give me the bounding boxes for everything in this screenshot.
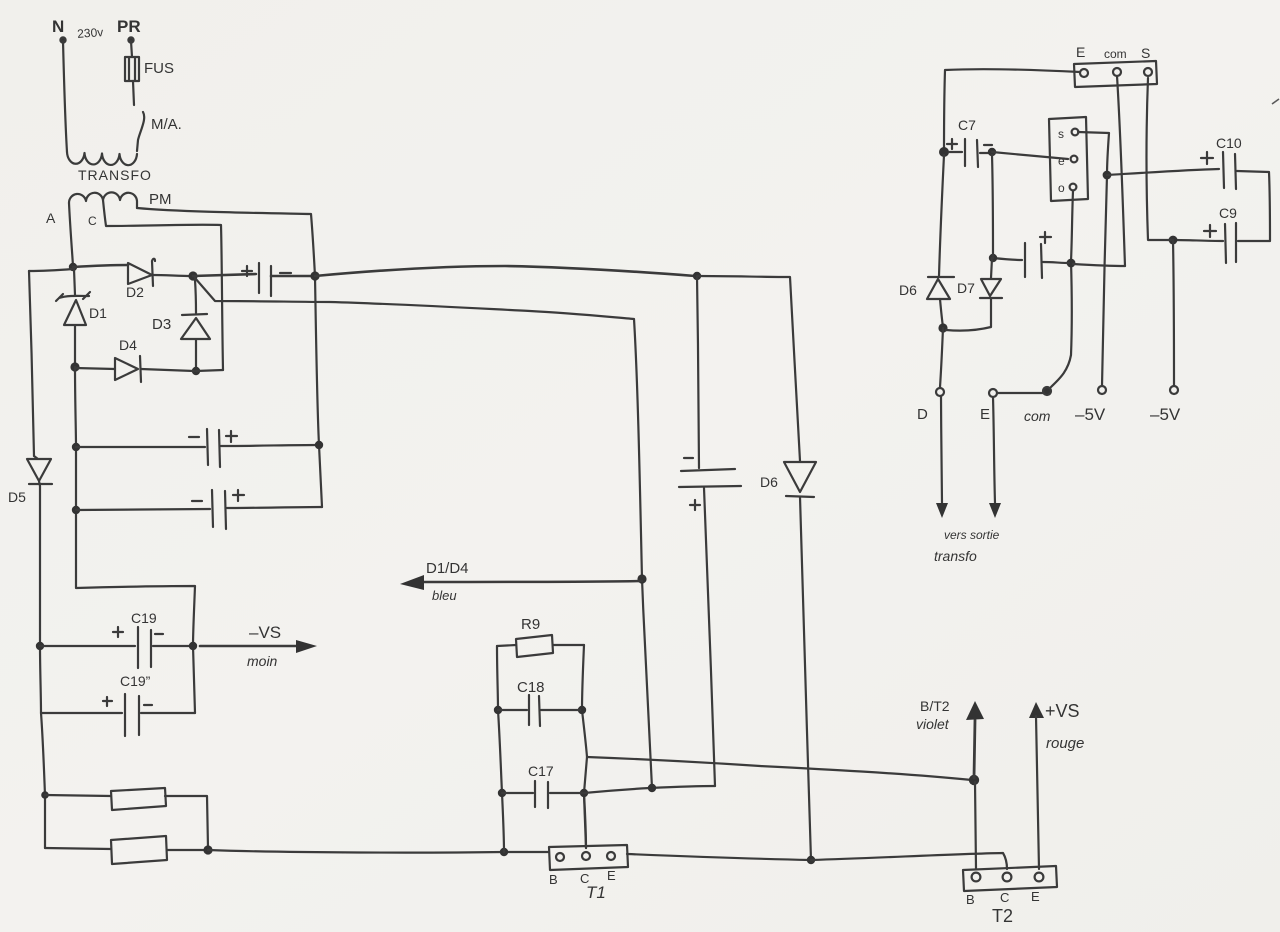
node D6/D7 [938, 323, 947, 332]
resistor (upper) leads [45, 795, 208, 848]
wire far-left rail upper [29, 271, 34, 456]
wire A-line down left column [75, 367, 195, 713]
svg-text:s: s [1058, 127, 1064, 141]
wire secondary A lead [69, 203, 73, 266]
terminal -5V right [1170, 386, 1178, 394]
svg-text:violet: violet [916, 716, 950, 732]
connector T2 pin B [972, 873, 981, 882]
svg-text:C10: C10 [1216, 135, 1242, 151]
node C17 left [498, 789, 506, 797]
capacitor C19'' plus [103, 697, 112, 706]
wire fuse to switch [133, 81, 134, 105]
diode D7 [980, 279, 1002, 298]
terminal -5V left [1098, 386, 1106, 394]
svg-text:o: o [1058, 181, 1065, 195]
connector T1 pin E [607, 852, 615, 860]
big filter capacitor plus [690, 500, 700, 510]
capacitor C7 minus [984, 144, 992, 146]
reservoir cap row2 plus [233, 490, 244, 501]
terminal N [60, 37, 65, 42]
reservoir cap row1 plus [226, 431, 237, 442]
wire secondary C tap [103, 200, 223, 370]
node C17 right [580, 789, 588, 797]
node bottom rail left [203, 845, 212, 854]
node C19 left [36, 642, 44, 650]
wire bridge output diagonal and long rail [195, 278, 652, 788]
resistor R9 leads [497, 645, 584, 646]
wire D6 down to bottom rail [800, 497, 811, 860]
svg-text:D2: D2 [126, 284, 144, 300]
wire D4 to D3 node [141, 369, 194, 371]
svg-text:D6: D6 [760, 474, 778, 490]
svg-text:C9: C9 [1219, 205, 1237, 221]
wire C18 right to T2 B node [587, 757, 972, 780]
wire T1 C pin up to C17 node [584, 795, 586, 848]
capacitor C7 plus [947, 139, 957, 149]
node D1/D4 [70, 362, 79, 371]
capacitor C18 plates [529, 695, 540, 726]
wire E line to arrow [993, 397, 995, 503]
capacitor C9 plates [1225, 223, 1236, 263]
svg-text:230v: 230v [77, 25, 104, 41]
diode D6 (main) [784, 462, 816, 497]
reservoir cap row1 minus [189, 436, 199, 438]
capacitor (driver) right lead [1043, 262, 1125, 266]
wire s pin to -5V left [1078, 132, 1109, 386]
diode D4 [115, 356, 141, 382]
capacitor C19'' minus [144, 704, 152, 706]
capacitor (D2 output) left lead [193, 274, 256, 276]
resistor R9 body [516, 635, 553, 657]
svg-text:T1: T1 [586, 883, 606, 902]
svg-text:D5: D5 [8, 489, 26, 505]
capacitor C17 leads [502, 792, 582, 794]
arrow +VS up [1029, 702, 1044, 718]
svg-text:D1/D4: D1/D4 [426, 560, 469, 577]
svg-text:T2: T2 [992, 906, 1013, 926]
node C7 right [988, 148, 996, 156]
svg-text:bleu: bleu [432, 588, 457, 603]
svg-text:D4: D4 [119, 337, 137, 353]
wire D6 small to node [940, 299, 943, 327]
connector T1 pin B [556, 853, 564, 861]
arrow -VS [200, 645, 298, 648]
svg-text:D6: D6 [899, 282, 917, 298]
reservoir cap row2 plates [212, 490, 226, 529]
wire E pin to C7 [944, 69, 1080, 152]
node o/cap junction [1067, 259, 1076, 268]
capacitor C19'' plates [125, 694, 139, 736]
terminal com [1043, 387, 1051, 395]
wire C9 node to S pin [1147, 78, 1174, 240]
node A junction [69, 263, 77, 271]
wire node to D3 [195, 280, 196, 313]
capacitor (D2 output) plates [259, 263, 271, 296]
wire com pin drop [1117, 76, 1125, 266]
wire D2 to bridge+ node [153, 275, 191, 276]
svg-text:B: B [549, 872, 558, 887]
wire far-left rail lower [40, 486, 45, 848]
capacitor C19'' right lead [141, 712, 195, 714]
connector T1 body [549, 845, 628, 870]
node C9/-5V junction [1169, 236, 1178, 245]
svg-text:A: A [46, 210, 56, 226]
svg-text:D7: D7 [957, 280, 975, 296]
connector middle body [1049, 117, 1088, 201]
wire D line to arrow [941, 396, 942, 503]
svg-text:+VS: +VS [1045, 701, 1080, 721]
capacitor (driver) plates [1025, 243, 1042, 278]
svg-text:C: C [88, 214, 97, 228]
svg-text:com: com [1104, 47, 1127, 61]
capacitor C19 right lead [153, 645, 193, 647]
capacitor (driver) left lead [993, 258, 1022, 260]
resistor (upper) body [111, 788, 166, 810]
transformer primary winding [67, 152, 137, 165]
capacitor plus sign [242, 266, 252, 276]
svg-text:C: C [1000, 890, 1009, 905]
node cap row1 right [315, 441, 323, 449]
arrow D1/D4 to the left [424, 581, 642, 582]
wire C7 to e pin [992, 152, 1068, 159]
wire C7 right down to D7 [991, 155, 993, 278]
capacitor C9 plus [1204, 225, 1216, 237]
wire D3 node to C-tap corner [196, 370, 223, 371]
connector T2 pin E [1035, 873, 1044, 882]
big filter capacitor lower lead [704, 488, 715, 786]
capacitor (driver) plus [1040, 232, 1051, 243]
svg-text:transfo: transfo [934, 548, 977, 564]
svg-text:E: E [607, 868, 616, 883]
svg-text:rouge: rouge [1046, 735, 1084, 752]
node bridge plus [188, 271, 197, 280]
wire o pin drop to com terminal [1051, 191, 1073, 387]
capacitor right lead [271, 275, 313, 278]
switch M/A lever [137, 112, 144, 151]
node D3/D4 [192, 367, 200, 375]
wire C7 left down to D6 [939, 155, 944, 276]
connector T2 body [963, 866, 1057, 891]
wire C17 right to big cap bottom [584, 786, 715, 793]
arrow D down [936, 503, 948, 518]
capacitor C19 plates [138, 627, 151, 668]
reservoir cap row2 right lead [227, 507, 322, 508]
svg-text:vers sortie: vers sortie [944, 528, 1000, 542]
wire top rail to D6 corner [697, 276, 800, 461]
wire PR to fuse [131, 41, 132, 57]
wire C10 right to C9 right [1237, 171, 1270, 241]
svg-text:C7: C7 [958, 117, 976, 133]
node s/C10 junction [1103, 171, 1112, 180]
reservoir cap row1 right lead [221, 445, 317, 446]
svg-text:moin: moin [247, 653, 278, 669]
transformer secondary winding [69, 192, 137, 208]
svg-text:E: E [1076, 44, 1085, 60]
fuse FUS [125, 57, 139, 81]
node C19 right [189, 642, 197, 650]
diode D2 [128, 259, 155, 286]
svg-text:PR: PR [117, 17, 141, 36]
reservoir cap row2 minus [192, 500, 202, 502]
svg-text:E: E [980, 406, 990, 423]
terminal PR [128, 37, 133, 42]
capacitor C19'' left lead [41, 712, 122, 714]
wire B node down to T2 pin B [975, 782, 976, 869]
node x316 top [310, 271, 319, 280]
wire C10 left lead [1107, 169, 1219, 175]
diode D5 [27, 456, 52, 486]
big filter capacitor upper lead [697, 276, 699, 468]
stray pencil tick right edge [1272, 99, 1279, 104]
node T2 B junction [969, 775, 979, 785]
capacitor C19 plus [113, 627, 123, 637]
svg-text:D3: D3 [152, 316, 171, 333]
svg-text:FUS: FUS [144, 60, 174, 77]
svg-text:–5V: –5V [1075, 405, 1106, 424]
wire E terminal to com terminal [997, 392, 1043, 394]
capacitor C7 leads [949, 152, 990, 153]
wire D7 to node [946, 298, 991, 331]
connector T2 pin C [1003, 873, 1012, 882]
wire A junction to far-left rail [29, 269, 73, 271]
svg-text:C19”: C19” [120, 673, 151, 689]
wire long top rail to right [315, 266, 695, 276]
capacitor C10 plus [1201, 152, 1213, 164]
svg-text:–VS: –VS [249, 623, 281, 642]
wire bottom rail T1 to D6 [627, 854, 811, 860]
reservoir cap row2 left lead [76, 509, 210, 510]
connector middle pin s [1072, 129, 1079, 136]
big filter capacitor plates [679, 469, 741, 487]
svg-text:D: D [917, 406, 928, 423]
big filter capacitor minus [684, 457, 693, 459]
svg-text:TRANSFO: TRANSFO [78, 167, 152, 183]
svg-text:PM: PM [149, 191, 172, 208]
node cap row1 left [72, 443, 80, 451]
svg-text:com: com [1024, 408, 1051, 424]
capacitor minus sign [280, 272, 291, 274]
reservoir cap row1 plates [207, 429, 220, 467]
arrow B/T2 up [974, 720, 975, 778]
svg-text:S: S [1141, 45, 1150, 61]
wire PM lead to right and down (node at x=316) [137, 208, 322, 507]
node cap row2 left [72, 506, 80, 514]
diode D1 [56, 269, 90, 367]
svg-text:M/A.: M/A. [151, 116, 182, 133]
wire to D4 [75, 368, 115, 369]
node big cap branch [693, 272, 701, 280]
wire C9 left lead [1175, 240, 1223, 241]
svg-text:C18: C18 [517, 679, 545, 696]
wire R9 right column [582, 645, 587, 848]
node D1/D4 rail meets C17 rail [648, 784, 656, 792]
wire R9 left column [497, 646, 504, 852]
svg-text:D1: D1 [89, 305, 107, 321]
node C18 left [494, 706, 502, 714]
node C18 right [578, 706, 586, 714]
wire D2 input [73, 265, 128, 267]
connector top pin E [1080, 69, 1088, 77]
diode D3 [181, 314, 210, 369]
svg-text:e: e [1058, 154, 1065, 168]
svg-text:C19: C19 [131, 610, 157, 626]
node resistor row1 left [41, 791, 49, 799]
connector top (E com S) body [1074, 61, 1157, 87]
resistor (lower) body [111, 836, 167, 864]
capacitor C18 leads [498, 709, 580, 711]
node bottom rail at D6 [807, 856, 815, 864]
capacitor C19 left lead [40, 645, 135, 647]
reservoir cap row1 left lead [76, 446, 205, 448]
diode D6 (small) [927, 277, 954, 299]
svg-text:–5V: –5V [1150, 405, 1181, 424]
capacitor C19 minus [155, 633, 163, 635]
node C7-right/D7 top [989, 254, 997, 262]
svg-text:E: E [1031, 889, 1040, 904]
svg-text:N: N [52, 17, 64, 36]
svg-text:B/T2: B/T2 [920, 698, 950, 714]
svg-text:R9: R9 [521, 616, 540, 633]
node bottom rail at R9 column [500, 848, 508, 856]
connector top pin S [1144, 68, 1152, 76]
connector T1 pin C [582, 852, 590, 860]
wire bottom rail to T2 C pin [811, 853, 1007, 869]
connector top pin com [1113, 68, 1121, 76]
wire -5V right drop [1173, 240, 1174, 386]
connector middle pin o [1070, 184, 1077, 191]
node D1/D4 arrow junction [637, 574, 646, 583]
capacitor C7 plates [965, 139, 978, 167]
svg-text:C17: C17 [528, 763, 554, 779]
wire +VS down to T2 pin E [1036, 716, 1039, 869]
connector middle pin e [1071, 156, 1078, 163]
wire D line down [940, 328, 943, 387]
terminal D [936, 388, 944, 396]
capacitor C10 plates [1223, 152, 1236, 189]
arrow E down [989, 503, 1001, 518]
capacitor C17 plates [535, 781, 548, 808]
wire N to transformer primary [63, 41, 67, 152]
terminal E (sortie) [989, 389, 997, 397]
svg-text:B: B [966, 892, 975, 907]
resistor (lower) leads [45, 848, 206, 850]
node C7 left [939, 147, 949, 157]
wire bottom rail to T1 [208, 850, 549, 853]
